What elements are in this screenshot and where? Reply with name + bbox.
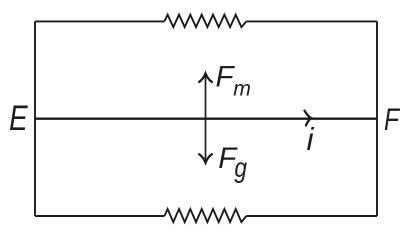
force arrow shaft (vertical double arrow) <box>205 75 207 162</box>
wire E-F (middle conductor) <box>35 118 377 120</box>
wire bottom-right segment <box>246 215 377 217</box>
svg-text:m: m <box>233 77 251 100</box>
arrowhead up (Fm) <box>199 73 212 82</box>
svg-text:E: E <box>9 99 28 138</box>
wire right side <box>376 21 378 216</box>
svg-text:g: g <box>234 152 247 183</box>
resistor R1 (top) <box>164 15 246 27</box>
wire left side <box>34 21 36 216</box>
wire bottom-left segment <box>35 215 164 217</box>
svg-text:F: F <box>384 101 400 137</box>
current arrowhead on wire <box>305 111 312 126</box>
wire top-left segment <box>35 20 164 22</box>
wire top-right segment <box>246 20 377 22</box>
svg-text:i: i <box>307 121 315 157</box>
arrowhead down (Fg) <box>199 154 212 163</box>
resistor R2 (bottom) <box>164 209 246 222</box>
